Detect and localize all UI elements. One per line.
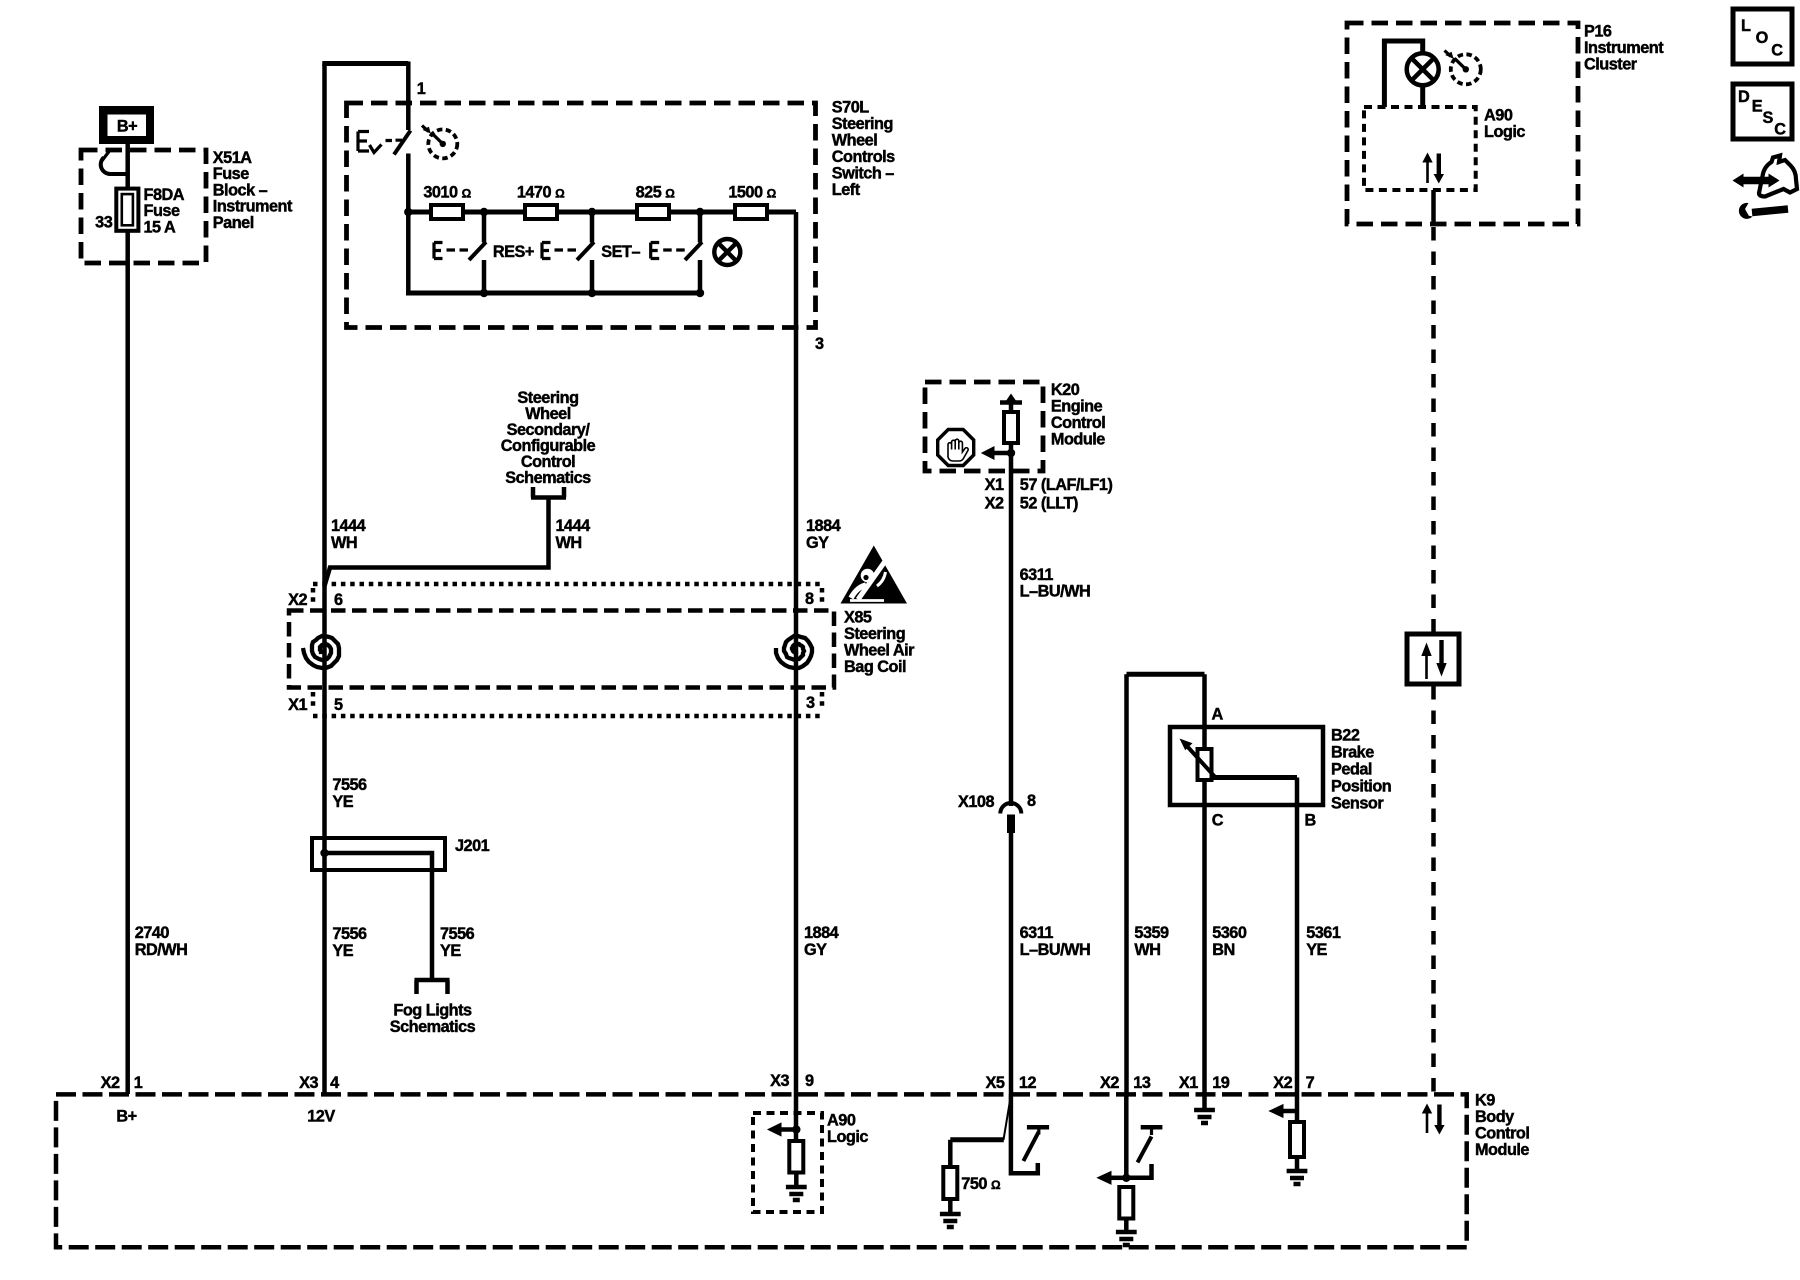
svg-text:X2: X2 bbox=[288, 591, 307, 609]
svg-text:YE: YE bbox=[440, 942, 461, 960]
svg-text:X2: X2 bbox=[101, 1074, 120, 1092]
X85 steering wheel air bag coil dashed box bbox=[289, 611, 834, 688]
svg-text:K20: K20 bbox=[1051, 381, 1080, 399]
junction dots top bus bbox=[404, 208, 412, 216]
pull resistor at X2-13 bbox=[1119, 1187, 1133, 1219]
in-line splice J201 bbox=[312, 838, 445, 870]
svg-text:BN: BN bbox=[1212, 941, 1235, 959]
serial data arrows in K9 bbox=[1422, 1104, 1445, 1135]
svg-text:Engine: Engine bbox=[1051, 398, 1103, 416]
svg-text:15 A: 15 A bbox=[144, 219, 177, 237]
svg-text:8: 8 bbox=[805, 590, 814, 608]
fog lights off-page bracket bbox=[415, 980, 450, 994]
wire label 7556 YE (fog branch) bbox=[440, 925, 475, 960]
svg-text:P16: P16 bbox=[1584, 23, 1612, 41]
K9 X1-19 ground bbox=[1202, 1094, 1207, 1108]
left coil spiral bbox=[303, 636, 339, 668]
S70L label bbox=[832, 99, 895, 200]
wire label 5361 YE bbox=[1306, 924, 1341, 959]
svg-text:Steering: Steering bbox=[844, 625, 905, 643]
resistor 1500 ohm bbox=[735, 205, 767, 219]
svg-text:J201: J201 bbox=[455, 837, 490, 855]
switch branch 2 (SET-) bbox=[542, 212, 594, 293]
svg-text:Body: Body bbox=[1475, 1108, 1514, 1126]
svg-text:X2: X2 bbox=[1100, 1074, 1119, 1092]
K9 label bbox=[1475, 1092, 1529, 1160]
svg-text:C: C bbox=[1774, 121, 1786, 139]
wire label 7556 YE (below J201 left) bbox=[332, 925, 367, 960]
internal switch at X2-13 bbox=[1141, 1125, 1163, 1130]
svg-text:19: 19 bbox=[1212, 1074, 1230, 1092]
wire 5359 WH riser and jumper to B22 pin A bbox=[1127, 672, 1205, 677]
svg-text:1: 1 bbox=[134, 1074, 143, 1092]
A90 input arrow bbox=[794, 1094, 799, 1141]
cluster lamp feed bracket bbox=[1384, 41, 1422, 107]
svg-text:9: 9 bbox=[805, 1072, 814, 1090]
svg-text:3010 Ω: 3010 Ω bbox=[423, 184, 471, 202]
svg-text:33: 33 bbox=[95, 213, 113, 231]
A90 logic dashed box (K9) bbox=[753, 1113, 822, 1212]
in-line connector X108 pin 8 bbox=[1000, 803, 1021, 814]
P16 label bbox=[1584, 23, 1664, 74]
wire B22 pin A drop bbox=[1202, 674, 1207, 749]
X85 connector X1 dotted band bbox=[313, 692, 822, 716]
svg-text:7556: 7556 bbox=[440, 925, 475, 943]
svg-text:57 (LAF/LF1): 57 (LAF/LF1) bbox=[1020, 476, 1113, 494]
svg-text:4: 4 bbox=[330, 1074, 339, 1092]
A90 pull resistor bbox=[789, 1141, 803, 1173]
svg-text:B: B bbox=[1305, 812, 1317, 830]
ground at 750 ohm bbox=[940, 1214, 961, 1227]
svg-text:C: C bbox=[1212, 812, 1224, 830]
svg-text:825 Ω: 825 Ω bbox=[636, 184, 676, 202]
svg-text:L–BU/WH: L–BU/WH bbox=[1020, 941, 1091, 959]
svg-text:B+: B+ bbox=[117, 118, 137, 136]
svg-text:Instrument: Instrument bbox=[213, 198, 293, 216]
off-page reference: steering wheel secondary controls bbox=[501, 389, 596, 487]
svg-text:B22: B22 bbox=[1331, 727, 1360, 745]
svg-text:C: C bbox=[1771, 42, 1783, 60]
svg-text:Pedal: Pedal bbox=[1331, 761, 1372, 779]
resistor ladder top bus bbox=[408, 210, 796, 215]
K20 stop/hand octagon icon bbox=[938, 430, 974, 466]
svg-text:7556: 7556 bbox=[332, 776, 367, 794]
junction dots bottom bus bbox=[480, 289, 488, 297]
svg-text:Bag Coil: Bag Coil bbox=[844, 658, 906, 676]
P16 instrument cluster dashed box bbox=[1347, 23, 1578, 224]
resistor 1470 ohm bbox=[525, 205, 557, 219]
svg-text:5360: 5360 bbox=[1212, 924, 1247, 942]
svg-text:Cluster: Cluster bbox=[1584, 56, 1638, 74]
svg-text:Logic: Logic bbox=[1484, 123, 1525, 141]
K20 internal resistor bbox=[1004, 412, 1018, 443]
svg-text:WH: WH bbox=[556, 534, 582, 552]
cruise gauge icon bbox=[422, 126, 457, 159]
S70L switch dashed box bbox=[347, 103, 816, 328]
svg-text:L–BU/WH: L–BU/WH bbox=[1020, 583, 1091, 601]
vehicle data link icon bbox=[1733, 156, 1798, 219]
cruise on/off switch (Ev) bbox=[358, 131, 411, 155]
svg-text:1884: 1884 bbox=[806, 517, 841, 535]
svg-text:S: S bbox=[1763, 109, 1774, 127]
svg-text:X51A: X51A bbox=[213, 149, 252, 167]
svg-text:1: 1 bbox=[417, 80, 426, 98]
svg-text:S70L: S70L bbox=[832, 99, 869, 117]
svg-text:7556: 7556 bbox=[332, 925, 367, 943]
wire B+ to fuse F8DA (2740 RD/WH) bbox=[125, 144, 130, 1094]
A90 ground bbox=[786, 1187, 807, 1200]
svg-text:X3: X3 bbox=[770, 1072, 789, 1090]
svg-text:Switch –: Switch – bbox=[832, 165, 894, 183]
svg-text:1470 Ω: 1470 Ω bbox=[517, 184, 565, 202]
serial data wire to K9 bbox=[1431, 686, 1436, 1093]
svg-text:L: L bbox=[1741, 17, 1751, 35]
K9 X5-12 input: wire jog and tap bbox=[1011, 1094, 1038, 1173]
internal switch at X5-12 bbox=[1027, 1125, 1049, 1130]
wire label 5360 BN bbox=[1212, 924, 1247, 959]
ground at X2-7 bbox=[1287, 1171, 1308, 1184]
svg-text:5: 5 bbox=[334, 696, 343, 714]
svg-text:Brake: Brake bbox=[1331, 744, 1374, 762]
svg-text:12V: 12V bbox=[307, 1108, 335, 1126]
svg-text:1444: 1444 bbox=[331, 517, 366, 535]
wiper output wire to pin B bbox=[1214, 775, 1298, 780]
B22 brake pedal position sensor box bbox=[1170, 727, 1323, 805]
svg-text:X1: X1 bbox=[1179, 1074, 1198, 1092]
svg-text:12: 12 bbox=[1019, 1074, 1037, 1092]
svg-text:Control: Control bbox=[1475, 1125, 1529, 1143]
K20 internal voltage source bar bbox=[1000, 400, 1022, 405]
cluster indicator lamp bbox=[1407, 53, 1439, 85]
wire label 1444 WH (center) bbox=[556, 517, 591, 552]
svg-text:3: 3 bbox=[806, 694, 815, 712]
svg-text:GY: GY bbox=[804, 941, 827, 959]
svg-text:YE: YE bbox=[332, 793, 353, 811]
wire label 1884 GY (upper) bbox=[806, 517, 841, 552]
svg-text:1884: 1884 bbox=[804, 924, 839, 942]
J201 tap wire to fog lights bbox=[320, 849, 328, 857]
svg-text:1500 Ω: 1500 Ω bbox=[728, 184, 776, 202]
svg-text:Fuse: Fuse bbox=[144, 202, 180, 220]
svg-text:750 Ω: 750 Ω bbox=[961, 1175, 1001, 1193]
wire pin C drop 5360 BN bbox=[1202, 780, 1207, 1094]
svg-text:D: D bbox=[1738, 88, 1750, 106]
svg-text:O: O bbox=[1756, 29, 1768, 47]
svg-text:RD/WH: RD/WH bbox=[135, 941, 188, 959]
K20 signal arrow bbox=[994, 451, 1011, 456]
svg-text:YE: YE bbox=[1306, 941, 1327, 959]
svg-text:YE: YE bbox=[332, 942, 353, 960]
ground at X2-13 bbox=[1116, 1232, 1137, 1245]
svg-text:5361: 5361 bbox=[1306, 924, 1341, 942]
wire 6311 L-BU/WH (upper) bbox=[1009, 471, 1014, 806]
A90 logic dashed box (P16) bbox=[1364, 107, 1476, 190]
svg-text:13: 13 bbox=[1133, 1074, 1151, 1092]
svg-text:5359: 5359 bbox=[1134, 924, 1169, 942]
bottom bus bbox=[406, 291, 700, 296]
svg-text:WH: WH bbox=[331, 534, 357, 552]
svg-text:X1: X1 bbox=[985, 476, 1004, 494]
svg-text:X2: X2 bbox=[1273, 1074, 1292, 1092]
svg-text:6311: 6311 bbox=[1020, 924, 1054, 942]
svg-text:Controls: Controls bbox=[832, 148, 895, 166]
svg-text:B+: B+ bbox=[116, 1108, 136, 1126]
fuse block X51A dashed box bbox=[81, 150, 206, 263]
switch branch 1 (RES+) bbox=[434, 212, 486, 293]
fuse clip symbol bbox=[101, 158, 128, 175]
svg-text:6311: 6311 bbox=[1020, 566, 1054, 584]
wire 1444 WH main riser bbox=[322, 64, 327, 1095]
wire label 1444 WH (left) bbox=[331, 517, 366, 552]
svg-text:X85: X85 bbox=[844, 609, 872, 627]
svg-text:SET–: SET– bbox=[601, 243, 640, 261]
wire top jumper into S70L pin 1 bbox=[322, 61, 408, 66]
X51A label bbox=[213, 149, 293, 232]
svg-text:Fog Lights: Fog Lights bbox=[393, 1002, 472, 1020]
serial data gateway box bbox=[1407, 634, 1459, 684]
svg-text:A: A bbox=[1212, 706, 1224, 724]
svg-text:52 (LLT): 52 (LLT) bbox=[1020, 495, 1078, 513]
B+ battery feed symbol bbox=[99, 106, 154, 144]
svg-text:X108: X108 bbox=[958, 793, 994, 811]
svg-text:Wheel: Wheel bbox=[832, 132, 877, 150]
svg-text:Fuse: Fuse bbox=[213, 165, 249, 183]
svg-text:Panel: Panel bbox=[213, 214, 254, 232]
X85 label bbox=[844, 609, 915, 677]
wire label 7556 YE (above J201) bbox=[332, 776, 367, 811]
svg-text:Instrument: Instrument bbox=[1584, 39, 1664, 57]
fuse F8DA 15 A bbox=[116, 189, 138, 231]
serial data arrows in A90 bbox=[1422, 153, 1444, 184]
svg-text:3: 3 bbox=[815, 335, 824, 353]
arrow out at X2-13 bbox=[1111, 1176, 1126, 1181]
fog lights schematics reference text bbox=[390, 1002, 476, 1037]
svg-text:2740: 2740 bbox=[135, 924, 170, 942]
svg-text:Block –: Block – bbox=[213, 181, 268, 199]
svg-text:7: 7 bbox=[1306, 1074, 1315, 1092]
resistor 3010 ohm bbox=[431, 205, 463, 219]
svg-text:Module: Module bbox=[1475, 1141, 1529, 1159]
svg-text:A90: A90 bbox=[827, 1112, 856, 1130]
svg-text:X3: X3 bbox=[299, 1074, 318, 1092]
DESC legend box bbox=[1733, 84, 1792, 139]
LOC legend box bbox=[1733, 9, 1792, 64]
svg-text:1444: 1444 bbox=[556, 517, 591, 535]
svg-text:Position: Position bbox=[1331, 778, 1391, 796]
wire 1884 GY riser bbox=[794, 212, 799, 1094]
resistor 825 ohm bbox=[637, 205, 669, 219]
potentiometer wiper arrow bbox=[1186, 745, 1216, 778]
svg-text:Schematics: Schematics bbox=[505, 469, 591, 487]
X85 connector X2 dotted band bbox=[313, 584, 822, 606]
svg-text:RES+: RES+ bbox=[493, 243, 534, 261]
svg-text:X5: X5 bbox=[985, 1074, 1004, 1092]
svg-text:WH: WH bbox=[1134, 941, 1160, 959]
wire label 1884 GY (lower) bbox=[804, 924, 839, 959]
svg-text:Wheel Air: Wheel Air bbox=[844, 642, 915, 660]
cluster gauge icon bbox=[1445, 51, 1481, 85]
K9 body control module dashed box bbox=[56, 1094, 1467, 1247]
750 ohm resistor bbox=[943, 1167, 957, 1199]
svg-text:GY: GY bbox=[806, 534, 829, 552]
switch lower contact wire bbox=[406, 154, 411, 213]
B22 label bbox=[1331, 727, 1391, 813]
svg-text:Schematics: Schematics bbox=[390, 1018, 476, 1036]
svg-text:Logic: Logic bbox=[827, 1128, 868, 1146]
potentiometer element bbox=[1198, 749, 1212, 780]
K20 wire below resistor bbox=[1009, 443, 1014, 471]
illumination lamp bbox=[714, 239, 740, 265]
fuse value label bbox=[144, 186, 185, 237]
K9 X2-7 branch bbox=[1295, 1094, 1300, 1122]
svg-text:F8DA: F8DA bbox=[144, 186, 185, 204]
svg-text:X1: X1 bbox=[288, 696, 307, 714]
svg-text:Sensor: Sensor bbox=[1331, 795, 1384, 813]
air bag warning triangle bbox=[841, 546, 908, 604]
serial data wire from cluster bbox=[1431, 190, 1436, 225]
K9 X2-13 branch bbox=[1124, 1094, 1129, 1178]
svg-text:8: 8 bbox=[1027, 792, 1036, 810]
wire 6311 L-BU/WH (lower) bbox=[1009, 833, 1014, 1094]
pull resistor at X2-7 bbox=[1290, 1122, 1304, 1157]
svg-text:K9: K9 bbox=[1475, 1092, 1495, 1110]
svg-text:Control: Control bbox=[1051, 414, 1105, 432]
svg-text:X2: X2 bbox=[985, 495, 1004, 513]
off-page bracket bbox=[531, 487, 566, 498]
K20 label bbox=[1051, 381, 1105, 448]
wire tap from bracket to riser bbox=[325, 498, 549, 587]
svg-text:Steering: Steering bbox=[832, 115, 893, 133]
switch branch 3 (lamp) bbox=[651, 212, 702, 293]
svg-text:A90: A90 bbox=[1484, 107, 1513, 125]
arrow out at X2-7 bbox=[1283, 1109, 1297, 1114]
svg-text:Left: Left bbox=[832, 181, 861, 199]
left rail bbox=[406, 212, 411, 293]
svg-text:E: E bbox=[1752, 98, 1763, 116]
svg-text:Module: Module bbox=[1051, 430, 1105, 448]
K20 engine control module dashed box bbox=[925, 382, 1043, 471]
svg-text:6: 6 bbox=[334, 591, 343, 609]
wire label 5359 WH bbox=[1134, 924, 1169, 959]
wire label 2740 RD/WH bbox=[135, 924, 188, 959]
right coil spiral bbox=[776, 636, 812, 668]
